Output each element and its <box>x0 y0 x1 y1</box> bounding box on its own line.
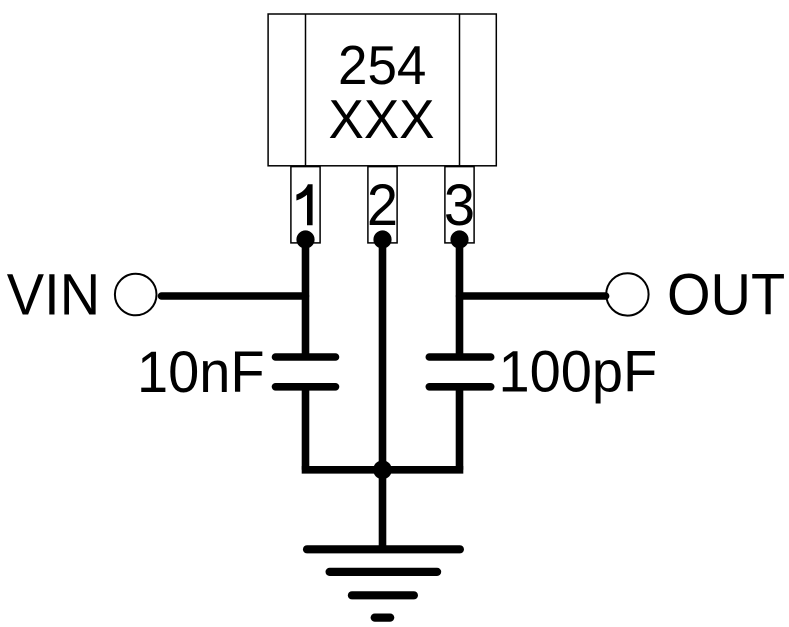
wire bottom net C1 to C2 <box>302 466 464 474</box>
junction node dot <box>373 460 392 479</box>
pin 1 number <box>296 184 312 225</box>
VIN terminal circle <box>115 274 157 316</box>
OUT terminal circle <box>606 273 648 315</box>
wire VIN to pin1 net <box>162 292 306 300</box>
svg-text:OUT: OUT <box>667 262 785 327</box>
svg-text:XXX: XXX <box>328 89 434 150</box>
svg-text:100pF: 100pF <box>499 339 658 404</box>
capacitor C2 top plate <box>429 353 490 361</box>
wire C1 down to bottom net <box>302 387 310 470</box>
svg-text:VIN: VIN <box>7 262 100 327</box>
svg-text:2: 2 <box>367 173 398 238</box>
capacitor C1 bottom plate <box>276 383 336 391</box>
pin 2 terminal dot <box>373 230 391 248</box>
wire pin2 down to ground <box>379 240 387 550</box>
pin 1 terminal dot <box>296 230 314 248</box>
wire pin1 down to C1 <box>302 240 310 358</box>
wire pin3 down to C2 <box>456 240 464 358</box>
svg-text:10nF: 10nF <box>137 340 265 405</box>
pin 1 lead <box>291 167 320 243</box>
ground symbol <box>307 549 460 617</box>
pin 2 lead <box>368 167 397 243</box>
capacitor C2 bottom plate <box>429 383 490 391</box>
pin 3 terminal dot <box>450 230 468 248</box>
IC U1 package body <box>268 14 496 166</box>
wire C2 down to bottom net <box>456 387 464 470</box>
wire OUT to pin3 net <box>460 292 606 300</box>
capacitor C1 top plate <box>276 353 336 361</box>
svg-text:3: 3 <box>444 173 475 238</box>
svg-text:254: 254 <box>338 35 426 96</box>
pin 3 lead <box>445 167 474 243</box>
